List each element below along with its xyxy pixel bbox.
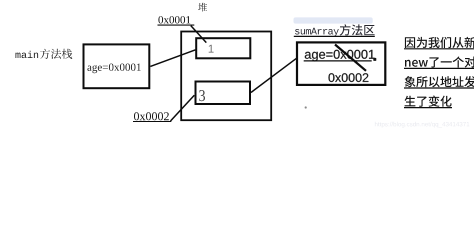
underline of 0x0002 label (133, 121, 171, 123)
label: main方法栈 (16, 49, 73, 59)
wire: object 3 to sumArray frame (251, 58, 297, 92)
text: age=0x0001 in frame (305, 50, 375, 62)
underline of note line 3 (404, 87, 474, 89)
wire: stack age to object 1 (150, 50, 195, 67)
text: 3 in object box (199, 90, 205, 101)
strike line across old address (335, 45, 366, 71)
underline of 0x0001 label (158, 24, 195, 26)
wire: 0x0001 label into object 1 (191, 26, 207, 43)
box: main stack variable (age) (84, 44, 150, 88)
highlight bar above sumArray label (294, 17, 373, 23)
underline of sumArray label (294, 35, 375, 37)
dot below sumArray frame (305, 106, 307, 108)
underline of note line 2 (404, 67, 474, 69)
label: 0x0002 address (134, 112, 169, 120)
box: heap (181, 32, 271, 121)
underline of age=0x0001 in frame (304, 60, 372, 62)
underline of note line 4 (404, 107, 452, 109)
label: sumArray方法区 (295, 24, 375, 36)
label: 0x0001 address (158, 16, 190, 23)
note line 4: 生了变化 (405, 96, 452, 107)
text: age=0x0001 in stack box (87, 64, 140, 74)
box: sumArray frame (297, 42, 385, 85)
text: 1 in object box (209, 45, 214, 53)
underline of note line 1 (404, 48, 474, 50)
note line 3: 象所以地址发 (405, 76, 474, 87)
text: 0x0002 new address (329, 73, 369, 82)
note line 2: new了一个对 (405, 57, 474, 68)
square period after age value (373, 58, 376, 61)
wire: 0x0002 label to object 3 (171, 95, 195, 121)
note line 1: 因为我们从新 (405, 37, 474, 48)
box: object 3 (196, 82, 251, 105)
label: 堆 (heap) (198, 3, 207, 12)
box: object 1 (196, 38, 250, 58)
watermark (375, 122, 469, 128)
